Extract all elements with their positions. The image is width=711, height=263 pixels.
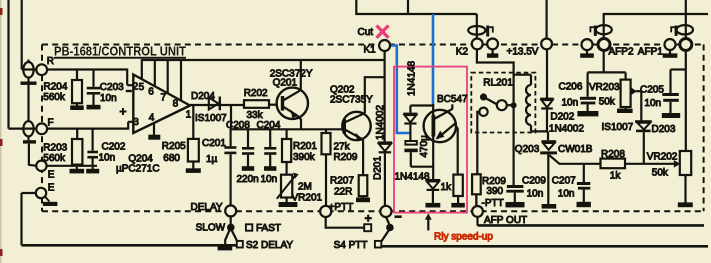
svg-text:4: 4	[149, 112, 155, 123]
svg-text:390: 390	[486, 186, 503, 197]
svg-text:Cut: Cut	[358, 27, 374, 38]
svg-text:C207: C207	[552, 175, 576, 186]
svg-text:Q203: Q203	[515, 144, 540, 155]
svg-text:5: 5	[139, 82, 145, 93]
svg-text:33k: 33k	[247, 110, 264, 121]
svg-text:10n: 10n	[527, 188, 544, 199]
svg-text:2SC735Y: 2SC735Y	[330, 95, 373, 106]
svg-text:D204: D204	[191, 91, 215, 102]
svg-text:BC547: BC547	[437, 94, 468, 105]
svg-text:10n: 10n	[644, 98, 661, 109]
svg-text:F: F	[48, 117, 54, 128]
svg-text:K2: K2	[456, 46, 469, 57]
svg-text:1N4148: 1N4148	[407, 61, 418, 96]
svg-text:C203: C203	[100, 82, 124, 93]
svg-text:1N4148: 1N4148	[395, 171, 430, 182]
svg-text:VR202: VR202	[647, 151, 678, 162]
svg-text:2M: 2M	[298, 182, 312, 193]
svg-text:R208: R208	[601, 149, 625, 160]
svg-text:C201: C201	[202, 138, 226, 149]
svg-text:22R: 22R	[334, 187, 352, 198]
svg-text:R: R	[47, 56, 54, 67]
svg-text:Rly speed-up: Rly speed-up	[434, 232, 493, 243]
svg-text:SLOW: SLOW	[196, 223, 226, 234]
svg-text:3: 3	[133, 117, 139, 128]
svg-text:D201: D201	[373, 156, 384, 180]
svg-text:560k: 560k	[43, 153, 66, 164]
svg-text:R209: R209	[334, 152, 358, 163]
svg-text:R203: R203	[43, 143, 67, 154]
svg-text:D202: D202	[550, 112, 574, 123]
svg-text:1µ: 1µ	[206, 154, 218, 165]
svg-text:8: 8	[173, 99, 179, 110]
svg-text:AFP1: AFP1	[638, 47, 663, 58]
svg-text:E: E	[48, 169, 55, 180]
svg-text:FAST: FAST	[256, 223, 281, 234]
svg-text:6: 6	[148, 86, 154, 97]
svg-text:50k: 50k	[652, 167, 669, 178]
svg-text:1N4002: 1N4002	[375, 105, 386, 140]
svg-text:10n: 10n	[558, 188, 575, 199]
svg-text:560k: 560k	[43, 92, 66, 103]
svg-text:10n: 10n	[562, 98, 579, 109]
svg-text:C205: C205	[640, 85, 664, 96]
svg-text:C208: C208	[226, 120, 250, 131]
svg-text:390k: 390k	[293, 152, 316, 163]
svg-text:220n: 220n	[237, 174, 259, 185]
svg-text:1k: 1k	[610, 171, 622, 182]
svg-text:VR203: VR203	[589, 82, 620, 93]
svg-text:R204: R204	[44, 82, 68, 93]
svg-text:C202: C202	[102, 141, 126, 152]
svg-text:10n: 10n	[100, 93, 117, 104]
svg-text:680: 680	[163, 153, 180, 164]
svg-text:AFP2: AFP2	[609, 47, 634, 58]
svg-text:50k: 50k	[599, 96, 616, 107]
svg-text:S4 PTT: S4 PTT	[334, 240, 368, 251]
svg-text:2SC372Y: 2SC372Y	[270, 69, 313, 80]
svg-text:DELAY: DELAY	[191, 202, 223, 213]
svg-text:E: E	[48, 183, 55, 194]
svg-text:IS1007: IS1007	[602, 122, 634, 133]
svg-text:PB-1681/CONTROL UNIT: PB-1681/CONTROL UNIT	[54, 43, 186, 58]
svg-text:10n: 10n	[261, 174, 278, 185]
svg-text:K1: K1	[364, 45, 377, 56]
svg-text:1: 1	[186, 110, 192, 121]
svg-text:CW01B: CW01B	[558, 144, 593, 155]
svg-text:µPC271C: µPC271C	[116, 164, 160, 175]
svg-text:27k: 27k	[334, 141, 351, 152]
svg-text:1k: 1k	[441, 182, 453, 193]
svg-text:7: 7	[161, 92, 167, 103]
svg-text:10n: 10n	[99, 152, 116, 163]
svg-text:C204: C204	[257, 120, 281, 131]
svg-text:VR201: VR201	[292, 193, 323, 204]
svg-text:R205: R205	[162, 141, 186, 152]
svg-text:-PTT: -PTT	[482, 198, 504, 209]
svg-text:1N4002: 1N4002	[549, 124, 584, 135]
svg-text:R201: R201	[293, 141, 317, 152]
svg-text:IS1007: IS1007	[195, 113, 227, 124]
svg-text:C206: C206	[559, 81, 583, 92]
svg-text:S2 DELAY: S2 DELAY	[246, 240, 293, 251]
svg-text:D203: D203	[652, 124, 676, 135]
svg-text:RL201: RL201	[483, 77, 513, 88]
svg-text:R207: R207	[330, 176, 354, 187]
svg-text:R202: R202	[244, 88, 268, 99]
svg-text:C209: C209	[522, 175, 546, 186]
svg-text:+13.5V: +13.5V	[507, 46, 539, 57]
svg-text:AFP OUT: AFP OUT	[484, 215, 527, 226]
